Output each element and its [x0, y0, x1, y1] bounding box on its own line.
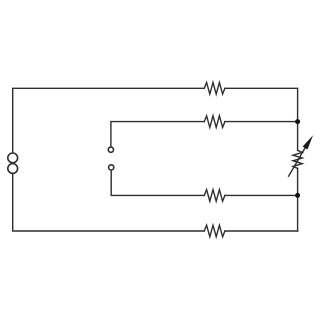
wire top horizontal right segment [225, 88, 298, 121]
current source I1 top circle [8, 153, 18, 163]
wire third horizontal (switch to node) [111, 171, 204, 196]
resistor R2 (second row) [204, 116, 225, 128]
wire bottom left segment [13, 174, 205, 231]
rheostat arrow shaft [289, 147, 306, 176]
rheostat arrowhead [303, 135, 313, 149]
resistor R1 (top) [204, 83, 225, 95]
rheostat R5 zigzag [293, 150, 302, 168]
wire bottom right segment [225, 230, 298, 232]
wire second row right segment [225, 121, 298, 123]
wire second horizontal (node to switch) [111, 122, 204, 147]
current source I1 bottom circle [8, 164, 18, 174]
wire right vertical to bottom [297, 195, 299, 231]
resistor R3 (third row) [204, 190, 225, 202]
switch S1 bottom terminal [109, 165, 114, 170]
node junction dot upper right [295, 119, 300, 124]
switch S1 top terminal [108, 147, 113, 152]
node junction dot lower right [295, 193, 300, 198]
wire right vertical upper (junction to rheostat) [297, 122, 299, 151]
wire top horizontal left segment [13, 88, 205, 153]
wire third row right segment [225, 194, 298, 196]
wire right vertical lower (rheostat to junction) [297, 168, 299, 195]
resistor R4 (bottom) [204, 225, 225, 237]
